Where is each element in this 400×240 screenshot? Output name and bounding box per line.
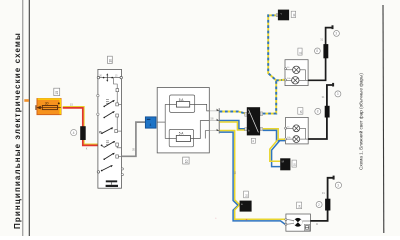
wire: H1 ground black bbox=[308, 28, 332, 81]
svg-text:8: 8 bbox=[316, 49, 318, 53]
switch S1 row4 contact bbox=[99, 127, 121, 134]
svg-text:56: 56 bbox=[233, 171, 237, 175]
connector strip X3 on relay box output bbox=[209, 108, 219, 133]
headlamp H2 bulbs bbox=[287, 125, 309, 143]
right margin caption text bbox=[358, 73, 364, 170]
headlamp H1 body bbox=[285, 60, 308, 86]
left margin title text bbox=[13, 32, 22, 229]
wire: yellow-blue branch down to connector K3 bbox=[270, 139, 280, 166]
label box F1 (fuse number) bbox=[54, 88, 60, 95]
relay U1 inner module 1 bbox=[170, 95, 195, 112]
svg-text:3: 3 bbox=[335, 32, 337, 36]
headlamp H1 pins bbox=[285, 67, 292, 81]
headlamp H2 pins bbox=[285, 126, 292, 140]
wire: yellow-blue solid pair, relay out to connector K1 lower bbox=[220, 121, 245, 131]
relay U1 internal wiring bbox=[157, 104, 209, 138]
rear lamp L1 body bbox=[286, 214, 311, 231]
svg-text:Ж: Ж bbox=[316, 223, 319, 226]
rear lamp L1 pins bbox=[285, 219, 287, 226]
left page border line (inner) bbox=[28, 0, 30, 236]
svg-text:15: 15 bbox=[70, 102, 74, 106]
wire: H2 ground black bbox=[308, 85, 332, 139]
headlamp H1 bulbs bbox=[287, 66, 309, 84]
svg-text:58: 58 bbox=[211, 116, 214, 120]
label box K3 bbox=[292, 160, 297, 167]
switch S1 row7 contact bbox=[97, 165, 123, 176]
callout circle near H1 bbox=[315, 48, 321, 54]
ground terminal tick (H1) bbox=[332, 25, 334, 29]
label box K4 bbox=[244, 191, 249, 198]
connector K3 (black) bbox=[280, 158, 290, 170]
wire: rear lamp ground black bbox=[310, 178, 333, 221]
relay U1 inner module 2 bbox=[169, 129, 193, 146]
svg-text:Принципиальные электрические с: Принципиальные электрические схемы bbox=[13, 32, 22, 229]
connector callout circle 4 bbox=[71, 130, 77, 136]
svg-text:15: 15 bbox=[55, 91, 59, 95]
left page edge line (outer) bbox=[22, 0, 24, 236]
svg-text:58: 58 bbox=[132, 147, 136, 151]
wire: yellow-blue dashed, K1 up to connector K2 bbox=[263, 15, 277, 113]
switch S1 row3 contact bbox=[103, 111, 118, 130]
connector K1 (black 2-pole) bbox=[245, 107, 263, 135]
label box L1 (rear lamp number) bbox=[297, 202, 302, 209]
connector K2 (top black) bbox=[276, 10, 289, 21]
rear lamp L1 section symbol bbox=[305, 224, 310, 230]
ground callout circle 3 (H2) bbox=[335, 91, 341, 97]
connector X6 on rear ground wire bbox=[325, 199, 330, 211]
headlamp H2 body bbox=[286, 117, 309, 143]
label box H2 (left headlamp number) bbox=[298, 108, 303, 115]
svg-text:2: 2 bbox=[318, 203, 320, 207]
fuse inside module 2 bbox=[176, 132, 190, 142]
fuse F1 (orange highlighted fusible link) bbox=[37, 99, 61, 115]
label box H1 (right headlamp number) bbox=[298, 48, 302, 55]
switch S1 bottom heater bars bbox=[106, 180, 118, 187]
svg-text:31: 31 bbox=[322, 95, 325, 99]
right page border line bbox=[382, 5, 385, 233]
label box S1 (switch number) bbox=[108, 56, 113, 63]
rear lamp L1 bulb (two-filament) bbox=[287, 218, 311, 227]
svg-text:10: 10 bbox=[108, 59, 112, 63]
switch S1 row1 ignition contact bbox=[97, 73, 122, 82]
svg-text:3: 3 bbox=[337, 92, 339, 96]
switch S1 row5 contact (feed from fuse) bbox=[101, 141, 122, 148]
switch S1 row1-row2 internal link wire bbox=[114, 78, 119, 103]
scan artifact dots bbox=[215, 218, 247, 221]
label box U1 (relay box number) bbox=[183, 157, 189, 164]
connector X1 on red feed wire bbox=[80, 126, 86, 140]
svg-text:30: 30 bbox=[45, 102, 49, 106]
svg-text:К: К bbox=[86, 147, 88, 151]
scan artifact orange dash on margin bbox=[24, 99, 29, 102]
svg-text:10: 10 bbox=[293, 163, 297, 167]
svg-text:10: 10 bbox=[185, 159, 189, 163]
wire: grey from switch S1 to relay box connector bbox=[122, 122, 146, 156]
svg-text:10: 10 bbox=[292, 13, 296, 17]
svg-text:15: 15 bbox=[299, 110, 303, 114]
callout circle near L1 bbox=[316, 202, 322, 208]
switch S1 row2 contact bbox=[103, 99, 121, 107]
wire: red/yellow feed from fuse F1 to switch S1 bbox=[63, 102, 98, 150]
ground terminal tick (rear) bbox=[333, 176, 335, 180]
wire: yellow-blue pair K1 to headlamp H2 bbox=[263, 129, 285, 141]
switch S1 row6 contact (output to relay box) bbox=[103, 153, 121, 160]
label box K2 bbox=[291, 11, 296, 17]
fuse F1 left battery terminal arrow bbox=[36, 105, 41, 110]
svg-text:11: 11 bbox=[298, 51, 302, 54]
ground callout circle 3 (rear) bbox=[335, 182, 341, 188]
wire: yellow-blue pair relay out3 down to rear lamp bbox=[220, 131, 319, 226]
connector K4 (black) bbox=[240, 201, 252, 212]
connector X5 on H2 ground wire bbox=[325, 106, 330, 118]
ground callout circle 3 (H1) bbox=[334, 31, 340, 37]
connector X2 (blue) into relay box bbox=[145, 117, 156, 128]
ground terminal tick (H2) bbox=[332, 83, 334, 87]
svg-text:Схема 1. Ближний свет фар (обы: Схема 1. Ближний свет фар (обычные фары) bbox=[358, 73, 364, 170]
wire: dashed branch into headlamp H1 bbox=[276, 79, 284, 82]
wire: yellow-blue dashed, relay out to connector K1 bbox=[220, 112, 245, 114]
fuse inside module 1 bbox=[176, 98, 189, 107]
svg-text:10: 10 bbox=[244, 193, 248, 197]
svg-text:24: 24 bbox=[298, 204, 302, 208]
svg-text:31: 31 bbox=[322, 191, 325, 195]
svg-text:4: 4 bbox=[150, 123, 152, 127]
switch S1 body (light/column switch unit) bbox=[97, 69, 122, 188]
svg-text:31: 31 bbox=[320, 37, 323, 41]
connector X4 on H1 ground wire bbox=[323, 44, 328, 58]
svg-text:3: 3 bbox=[337, 184, 339, 188]
relay/fuse box U1 outer body bbox=[157, 88, 209, 153]
svg-text:8: 8 bbox=[317, 110, 319, 114]
callout circle near H2 bbox=[315, 108, 321, 114]
svg-text:4: 4 bbox=[73, 131, 75, 135]
label box K1 bbox=[251, 138, 255, 143]
